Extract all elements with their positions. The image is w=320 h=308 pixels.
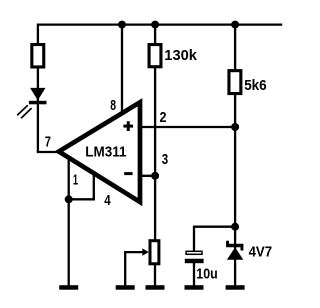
LED D1 cathode bar (29, 101, 47, 105)
svg-text:130k: 130k (164, 47, 197, 64)
node pins 1 and 4 tie (65, 195, 73, 203)
resistor R1 (top left, unlabelled) (32, 45, 44, 67)
wire left branch vertical through R1 and LED (37, 24, 39, 153)
svg-text:1: 1 (73, 172, 78, 189)
wire pot wiper horizontal (125, 251, 144, 253)
capacitor 10u bottom plate (185, 259, 204, 263)
wire top supply rail (38, 23, 282, 25)
wire pin 4 stub (93, 174, 95, 199)
wire zener to ground (234, 258, 236, 286)
zener diode 4V7 anode triangle (227, 247, 243, 259)
op-amp U1 LM311 triangle (59, 102, 140, 202)
wire potentiometer bottom to ground (154, 264, 156, 286)
svg-text:5k6: 5k6 (244, 77, 267, 94)
wire pin1-pin4 tie horizontal (69, 198, 95, 200)
node top rail / 5k6 (231, 21, 239, 29)
node pin 3 / 130k (151, 172, 159, 180)
potentiometer P1 body (150, 241, 159, 264)
wire pins 1/4 to ground (68, 199, 70, 286)
wire pot wiper vertical to ground (124, 251, 126, 286)
resistor 130k body (149, 45, 161, 67)
wire capacitor top vertical (193, 226, 195, 251)
LED D1 light slash 1 (17, 105, 28, 115)
ground pins 1/4 (59, 285, 78, 290)
zener diode 4V7 cathode bar with bent tabs (226, 241, 243, 251)
wire 5k6 / zener branch vertical (234, 25, 236, 249)
node top rail / 130k (151, 21, 159, 29)
svg-text:8: 8 (110, 97, 116, 114)
node pin 2 / 5k6 bottom (231, 123, 239, 131)
svg-text:10u: 10u (196, 265, 217, 282)
wire pin 8 vertical (121, 25, 123, 115)
node top rail / pin 8 (118, 21, 126, 29)
svg-text:3: 3 (162, 151, 168, 168)
wire pin 2 horizontal to 5k6 branch (138, 126, 235, 128)
capacitor 10u top plate (186, 251, 202, 254)
wire 130k branch vertical down to potentiometer (154, 25, 156, 241)
op-amp U1 minus input symbol (124, 172, 132, 175)
ground potentiometer (146, 285, 165, 290)
wire pin 1 stub (68, 158, 70, 199)
svg-text:LM311: LM311 (85, 145, 126, 161)
svg-text:4V7: 4V7 (249, 244, 273, 261)
node zener / capacitor branch (231, 223, 239, 231)
potentiometer wiper arrowhead (142, 248, 148, 255)
wire pin 3 stub (138, 175, 155, 177)
LED D1 light slash 2 (21, 108, 32, 118)
svg-text:2: 2 (160, 109, 167, 126)
ground zener (226, 285, 245, 290)
ground pot wiper (116, 285, 135, 290)
svg-text:7: 7 (45, 134, 51, 151)
ground capacitor (185, 285, 204, 290)
resistor 5k6 body (229, 71, 241, 94)
op-amp U1 plus input symbol (123, 125, 133, 128)
wire pin 7 horizontal (37, 151, 62, 153)
wire capacitor bottom to ground (193, 263, 195, 287)
LED D1 triangle (30, 88, 45, 101)
wire capacitor branch horizontal (194, 226, 235, 228)
svg-text:4: 4 (104, 192, 111, 209)
